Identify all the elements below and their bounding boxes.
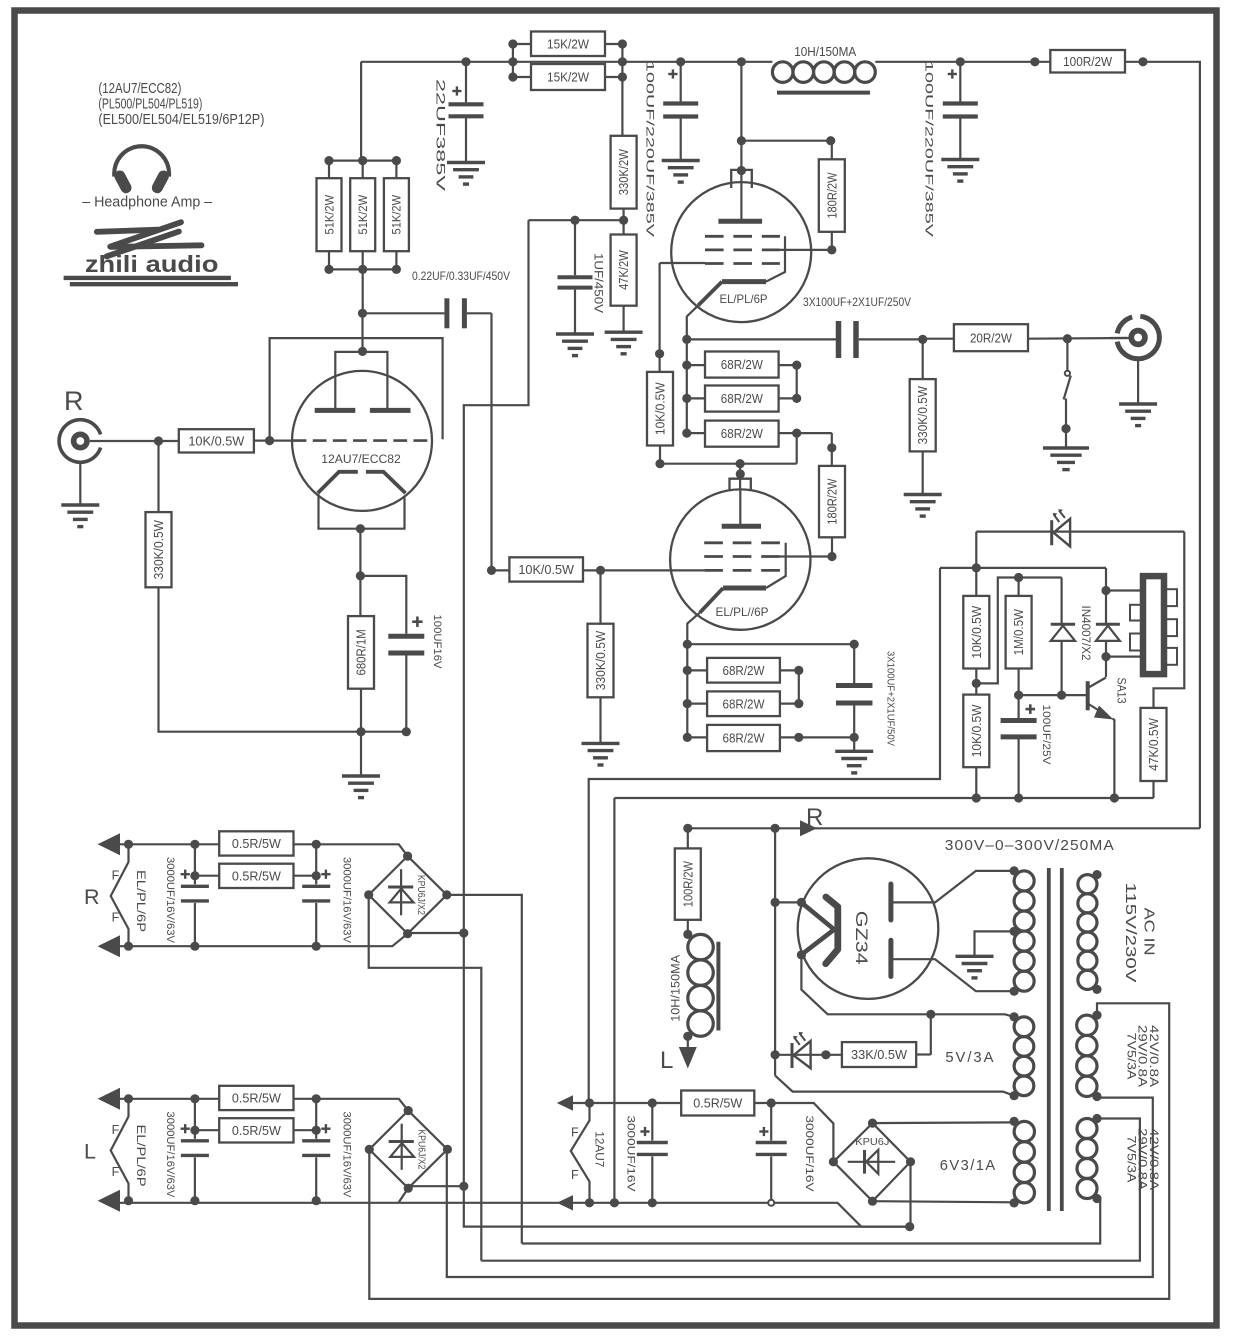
- svg-text:330K/0.5W: 330K/0.5W: [594, 631, 608, 691]
- svg-text:KPU6J/X2: KPU6J/X2: [415, 1129, 426, 1169]
- svg-text:R: R: [64, 386, 84, 416]
- svg-text:IN4007/X2: IN4007/X2: [1079, 606, 1091, 661]
- svg-text:10K/0.5W: 10K/0.5W: [970, 704, 984, 757]
- svg-text:100UF16V: 100UF16V: [431, 615, 443, 670]
- svg-text:KPU6J: KPU6J: [855, 1136, 889, 1148]
- svg-text:3000UF/16V: 3000UF/16V: [625, 1116, 637, 1193]
- svg-text:10K/0.5W: 10K/0.5W: [188, 433, 245, 448]
- svg-text:12AU7/ECC82: 12AU7/ECC82: [321, 452, 401, 466]
- svg-text:330K/0.5W: 330K/0.5W: [152, 520, 166, 580]
- svg-text:3X100UF+2X1UF/50V: 3X100UF+2X1UF/50V: [885, 651, 897, 746]
- svg-text:51K/2W: 51K/2W: [322, 194, 336, 234]
- svg-text:10H/150MA: 10H/150MA: [794, 45, 857, 59]
- svg-text:33K/0.5W: 33K/0.5W: [851, 1047, 908, 1062]
- svg-text:– Headphone Amp –: – Headphone Amp –: [82, 195, 212, 211]
- svg-text:42V/0.8A: 42V/0.8A: [1147, 1025, 1161, 1087]
- svg-text:12AU7: 12AU7: [592, 1131, 606, 1167]
- svg-text:0.5R/5W: 0.5R/5W: [232, 836, 282, 851]
- svg-text:0.5R/5W: 0.5R/5W: [232, 1123, 282, 1138]
- svg-text:EL/PL/6P: EL/PL/6P: [720, 292, 768, 306]
- svg-text:KPU6J/X2: KPU6J/X2: [415, 875, 426, 915]
- svg-text:(EL500/EL504/EL519/6P12P): (EL500/EL504/EL519/6P12P): [98, 111, 264, 128]
- svg-text:115V/230V: 115V/230V: [1122, 883, 1139, 983]
- svg-text:330K/2W: 330K/2W: [617, 149, 631, 195]
- svg-text:22UF385V: 22UF385V: [433, 79, 447, 191]
- svg-text:0.5R/5W: 0.5R/5W: [232, 1091, 282, 1106]
- svg-text:680R/1M: 680R/1M: [355, 629, 369, 675]
- svg-text:F: F: [571, 1126, 579, 1140]
- svg-text:F: F: [112, 869, 120, 883]
- svg-text:68R/2W: 68R/2W: [723, 731, 766, 746]
- svg-text:3000UF/16V/63V: 3000UF/16V/63V: [340, 1112, 352, 1198]
- svg-text:EL/PL/6P: EL/PL/6P: [134, 1125, 148, 1187]
- svg-text:0.5R/5W: 0.5R/5W: [232, 868, 282, 883]
- svg-text:3000UF/16V/63V: 3000UF/16V/63V: [164, 857, 176, 943]
- svg-text:1M/0.5W: 1M/0.5W: [1012, 609, 1026, 655]
- svg-text:F: F: [571, 1168, 579, 1182]
- svg-text:51K/2W: 51K/2W: [356, 194, 370, 234]
- svg-text:180R/2W: 180R/2W: [825, 172, 839, 218]
- svg-text:51K/2W: 51K/2W: [390, 194, 404, 234]
- svg-text:100UF/220UF/385V: 100UF/220UF/385V: [922, 61, 934, 238]
- svg-text:3X100UF+2X1UF/250V: 3X100UF+2X1UF/250V: [803, 295, 911, 309]
- svg-text:zhili audio: zhili audio: [85, 251, 219, 277]
- svg-text:R: R: [84, 885, 100, 909]
- svg-text:180R/2W: 180R/2W: [826, 478, 840, 524]
- svg-text:68R/2W: 68R/2W: [721, 357, 764, 372]
- svg-text:300V–0–300V/250MA: 300V–0–300V/250MA: [945, 838, 1115, 854]
- svg-text:330K/0.5W: 330K/0.5W: [916, 386, 930, 444]
- svg-text:F: F: [112, 911, 120, 925]
- svg-text:100R/2W: 100R/2W: [681, 861, 695, 907]
- svg-text:3000UF/16V/63V: 3000UF/16V/63V: [340, 857, 352, 943]
- svg-text:10K/0.5W: 10K/0.5W: [654, 382, 668, 435]
- svg-text:10H/150MA: 10H/150MA: [670, 954, 682, 1021]
- svg-text:F: F: [112, 1123, 120, 1137]
- svg-text:0.5R/5W: 0.5R/5W: [693, 1096, 743, 1111]
- svg-text:68R/2W: 68R/2W: [721, 426, 764, 441]
- svg-text:(PL500/PL504/PL519): (PL500/PL504/PL519): [98, 96, 202, 113]
- svg-text:100UF/25V: 100UF/25V: [1040, 705, 1052, 766]
- svg-text:47K/2W: 47K/2W: [617, 250, 631, 290]
- svg-text:AC IN: AC IN: [1140, 908, 1157, 956]
- svg-text:15K/2W: 15K/2W: [547, 36, 590, 51]
- svg-text:L: L: [660, 1047, 673, 1074]
- svg-text:F: F: [112, 1165, 120, 1179]
- svg-text:100UF/220UF/385V: 100UF/220UF/385V: [643, 61, 655, 238]
- svg-text:L: L: [84, 1140, 96, 1164]
- svg-text:(12AU7/ECC82): (12AU7/ECC82): [98, 80, 181, 97]
- svg-text:EL/PL/6P: EL/PL/6P: [134, 870, 148, 932]
- svg-text:15K/2W: 15K/2W: [547, 70, 590, 85]
- svg-text:5V/3A: 5V/3A: [945, 1049, 995, 1066]
- svg-text:EL/PL//6P: EL/PL//6P: [716, 605, 769, 619]
- svg-text:20R/2W: 20R/2W: [970, 330, 1013, 345]
- svg-text:100R/2W: 100R/2W: [1063, 54, 1113, 69]
- svg-text:3000UF/16V/63V: 3000UF/16V/63V: [164, 1112, 176, 1198]
- svg-text:10K/0.5W: 10K/0.5W: [970, 606, 984, 659]
- svg-text:3000UF/16V: 3000UF/16V: [803, 1116, 815, 1193]
- svg-text:42V/0.8A: 42V/0.8A: [1147, 1128, 1161, 1190]
- svg-text:SA13: SA13: [1115, 678, 1127, 704]
- svg-text:68R/2W: 68R/2W: [721, 391, 764, 406]
- svg-text:68R/2W: 68R/2W: [723, 696, 766, 711]
- svg-text:68R/2W: 68R/2W: [723, 663, 766, 678]
- svg-text:10K/0.5W: 10K/0.5W: [518, 562, 574, 577]
- svg-text:0.22UF/0.33UF/450V: 0.22UF/0.33UF/450V: [412, 269, 510, 283]
- svg-text:47K/0.5W: 47K/0.5W: [1147, 718, 1161, 771]
- svg-text:GZ34: GZ34: [852, 911, 871, 965]
- svg-text:1UF/450V: 1UF/450V: [591, 253, 603, 313]
- svg-text:6V3/1A: 6V3/1A: [940, 1157, 997, 1174]
- svg-text:R: R: [806, 804, 823, 831]
